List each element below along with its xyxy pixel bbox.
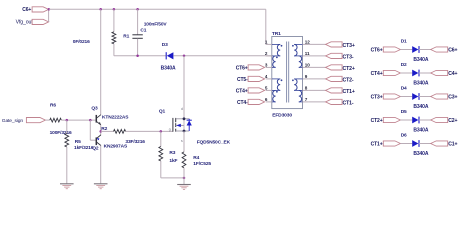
svg-text:CT1+: CT1+ (343, 89, 355, 95)
wire diode D1 to output (419, 49, 431, 51)
transistor Q1 FQD5N50C_EK mosfet (173, 118, 192, 132)
label D5 (401, 109, 407, 115)
node C1 bottom (136, 55, 139, 58)
wire TR1 pin 11 (309, 55, 326, 57)
svg-text:B340A: B340A (161, 66, 176, 72)
port C6+ (22, 7, 48, 13)
port C2+ (431, 117, 458, 124)
svg-text:Q2: Q2 (92, 146, 99, 152)
resistor R1 (112, 9, 116, 56)
label R4 (193, 155, 199, 161)
wire Vcc to Q3 collector (100, 9, 102, 114)
svg-text:C1: C1 (140, 28, 146, 34)
svg-text:11: 11 (305, 51, 310, 56)
wire diode D5 to output (419, 119, 431, 121)
node ground junction (183, 177, 186, 180)
transformer primary winding B (272, 79, 280, 102)
label Q1 (159, 108, 166, 114)
wire diode D2 to output (419, 72, 431, 74)
port CT3+ (326, 42, 355, 49)
svg-text:B340A: B340A (413, 81, 428, 87)
port CT1- (326, 99, 354, 106)
label Q2 (92, 146, 99, 152)
resistor R5 (65, 120, 69, 184)
resistor R2 (114, 130, 126, 134)
svg-text:C2+: C2+ (448, 118, 457, 124)
wire diode D4 to output (419, 96, 431, 98)
label R6 (50, 102, 56, 108)
port CT2+ input row 4 (371, 117, 401, 124)
svg-text:R1: R1 (123, 33, 129, 39)
diode D6 B340A (412, 140, 419, 147)
svg-text:Q1: Q1 (159, 108, 166, 114)
label R6 value 100F/3216 (50, 130, 72, 136)
svg-text:CT2+: CT2+ (371, 118, 383, 124)
port Vfg_out (16, 19, 49, 25)
label R3 (169, 150, 175, 156)
label Q2 value KN2907AS (104, 144, 128, 150)
svg-text:D5: D5 (401, 109, 407, 115)
svg-text:1F/C525: 1F/C525 (193, 161, 211, 167)
label Q3 (91, 105, 98, 111)
svg-text:R4: R4 (193, 155, 199, 161)
resistor R6 (50, 118, 62, 122)
wire R2 to Q1 gate (126, 130, 173, 132)
label D1 (401, 39, 407, 45)
port C1+ (431, 141, 458, 148)
node Q1 drain (183, 117, 186, 120)
node drain tap (183, 55, 186, 58)
label Q1 pin d (181, 107, 183, 111)
svg-text:CT3+: CT3+ (371, 94, 383, 100)
diode D2 B340A (412, 70, 419, 77)
port CT6+ at TR1 pin 3 (236, 65, 265, 72)
svg-text:CT1-: CT1- (343, 100, 354, 106)
label D4 (401, 86, 407, 92)
transformer primary winding A (272, 44, 280, 67)
label Q1 pin g (169, 127, 171, 131)
svg-text:1kF: 1kF (169, 158, 177, 164)
label D5 value B340A (413, 128, 428, 134)
svg-text:CT3+: CT3+ (343, 43, 355, 49)
label R3 value 1kF (169, 158, 177, 164)
svg-text:R6: R6 (50, 102, 56, 108)
svg-text:CT4+: CT4+ (371, 71, 383, 77)
transformer core (287, 42, 289, 103)
wire TR1 pin 10 (309, 66, 326, 68)
wire top rail (49, 8, 266, 10)
svg-text:CT2-: CT2- (343, 77, 354, 83)
svg-text:C1+: C1+ (448, 141, 457, 147)
capacitor C1 (132, 9, 142, 56)
label R1 (123, 33, 129, 39)
label R2 value 33F/3216 (125, 139, 145, 145)
svg-text:B340A: B340A (413, 57, 428, 63)
resistor R3 (159, 131, 163, 178)
label C1 (140, 28, 146, 34)
ground below R4 (177, 185, 191, 190)
port CT4- at TR1 pin 6 (237, 99, 265, 106)
wire R3 bottom to R4 bottom (161, 177, 184, 179)
label Q1 value FQD5N50C_EK (197, 140, 231, 146)
label C1 value 100nF/50V (144, 22, 168, 28)
TR1 right pin stubs (303, 44, 309, 102)
label D6 (401, 133, 407, 139)
svg-text:CT4-: CT4- (237, 100, 248, 106)
wire Q2 collector to ground (100, 146, 102, 184)
svg-text:B340A: B340A (413, 104, 428, 110)
wire node to R2 (101, 130, 114, 132)
svg-text:TR1: TR1 (272, 31, 281, 37)
svg-text:Q3: Q3 (91, 105, 98, 111)
transformer secondary winding C (294, 44, 302, 67)
svg-text:C4+: C4+ (448, 71, 457, 77)
wire to ground (183, 178, 185, 185)
label Q3 value KTN2222AS (102, 115, 129, 121)
label R4 value 1F/C525 (193, 161, 211, 167)
label D4 value B340A (413, 104, 428, 110)
port Gate_sign (2, 118, 46, 124)
port CT6+ input row 1 (371, 47, 401, 54)
svg-text:EFD3030: EFD3030 (272, 112, 292, 118)
wire Gate_sign to R6 (45, 119, 49, 121)
wire to diode D2 (400, 72, 412, 74)
wire R1 bottom to D3 (114, 55, 166, 57)
svg-text:CT2+: CT2+ (343, 66, 355, 72)
svg-text:B340A: B340A (413, 128, 428, 134)
transformer secondary winding D (294, 79, 302, 102)
wire top rail drop to TR1 pin1 (265, 9, 267, 44)
diode D5 B340A (412, 117, 419, 124)
label TR1 value EFD3030 (272, 112, 292, 118)
port C3+ (431, 94, 458, 101)
label D6 value B340A (413, 151, 428, 157)
svg-text:R2: R2 (101, 126, 107, 132)
svg-text:CT4+: CT4+ (236, 88, 248, 94)
port CT3- (326, 53, 354, 60)
svg-text:Gate_sign: Gate_sign (2, 118, 24, 124)
svg-text:d: d (181, 107, 183, 111)
TR1 left pin stubs (266, 44, 272, 102)
port C6+ (431, 47, 458, 54)
wire TR1 pin 9 (309, 78, 326, 80)
diode D4 B340A (412, 93, 419, 100)
svg-text:KN2907AS: KN2907AS (104, 144, 128, 150)
diode D3 B340A (166, 52, 173, 59)
svg-text:100F/3216: 100F/3216 (50, 130, 72, 136)
wire TR1 pin 12 (309, 43, 326, 45)
svg-text:CT6+: CT6+ (371, 47, 383, 53)
port CT2+ (326, 65, 355, 72)
svg-text:D3: D3 (162, 42, 168, 48)
wire TR1 pin 8 (309, 89, 326, 91)
port CT3+ input row 3 (371, 94, 401, 101)
svg-text:B340A: B340A (413, 151, 428, 157)
ground below R5 (60, 184, 74, 189)
ground below Q2 (94, 184, 108, 189)
label 0F/0216 (73, 39, 90, 45)
node Q1 source (183, 130, 186, 133)
label D3 (162, 42, 168, 48)
label D2 (401, 62, 407, 68)
label Q1 pin s (181, 139, 183, 143)
port CT2- (326, 76, 354, 83)
svg-text:D4: D4 (401, 86, 407, 92)
transformer TR1 box (272, 37, 303, 109)
node top rail / R1 (113, 8, 116, 11)
svg-text:12: 12 (305, 40, 310, 45)
svg-text:FQD5N50C_EK: FQD5N50C_EK (197, 140, 231, 146)
wire to diode D1 (400, 49, 412, 51)
label D1 value B340A (413, 57, 428, 63)
node base tap (89, 119, 92, 122)
svg-text:D6: D6 (401, 133, 407, 139)
port CT5- at TR1 pin 4 (237, 76, 265, 83)
label R5 (75, 139, 81, 145)
label D2 value B340A (413, 81, 428, 87)
svg-text:D1: D1 (401, 39, 407, 45)
wire Q3 emitter node (100, 125, 102, 135)
label D3 value B340A (161, 66, 176, 72)
svg-text:C6+: C6+ (22, 7, 31, 13)
wire diode D6 to output (419, 143, 431, 145)
wire D3 node to Q1 drain (183, 56, 185, 119)
node Vcc junction (48, 8, 51, 11)
wire to diode D4 (400, 96, 412, 98)
diode D1 B340A (412, 46, 419, 53)
transistor Q2 KN2907AS (96, 135, 101, 146)
svg-text:1kF/3216: 1kF/3216 (74, 145, 94, 151)
svg-text:CT3-: CT3- (343, 54, 354, 60)
svg-text:CT5-: CT5- (237, 77, 248, 83)
svg-text:g: g (169, 127, 171, 131)
port CT4+ at TR1 pin 5 (236, 88, 265, 95)
TR1 right pin numbers 12-7 (305, 40, 310, 103)
svg-text:KTN2222AS: KTN2222AS (102, 115, 129, 121)
wire R6 to bases (61, 119, 96, 121)
port CT4+ input row 2 (371, 70, 401, 77)
wire D3 to TR1 pin2 (173, 55, 271, 57)
polarity dots (276, 45, 294, 93)
port C4+ (431, 70, 458, 77)
label R2 (101, 126, 107, 132)
transistor Q3 KTN2222AS (96, 115, 101, 125)
svg-text:33F/3216: 33F/3216 (125, 139, 145, 145)
svg-text:C6+: C6+ (448, 47, 457, 53)
svg-text:100nF/50V: 100nF/50V (144, 22, 168, 28)
svg-text:Vfg_out: Vfg_out (16, 20, 34, 26)
wire ports join (48, 9, 50, 22)
node emitter junction (99, 130, 102, 133)
svg-text:CT6+: CT6+ (236, 65, 248, 71)
svg-text:R5: R5 (75, 139, 81, 145)
svg-text:R3: R3 (169, 150, 175, 156)
node top rail / Q column (99, 8, 102, 11)
svg-text:0F/0216: 0F/0216 (73, 39, 90, 45)
TR1 left pin numbers 1-6 (265, 40, 268, 103)
svg-text:D2: D2 (401, 62, 407, 68)
wire TR1 pin 7 (309, 101, 326, 103)
wire base to Q2 base (90, 120, 96, 140)
label TR1 (272, 31, 281, 37)
wire to diode D5 (400, 119, 412, 121)
resistor R4 (182, 131, 186, 178)
port CT1+ (326, 88, 355, 95)
svg-text:10: 10 (305, 63, 310, 68)
svg-text:CT1+: CT1+ (371, 141, 383, 147)
node R5 tap (66, 119, 69, 122)
svg-text:C3+: C3+ (448, 94, 457, 100)
wire to diode D6 (400, 143, 412, 145)
label R5 value 1kF/3216 (74, 145, 94, 151)
port CT1+ input row 5 (371, 141, 401, 148)
node top rail / C1 (136, 8, 139, 11)
node R3 tap (160, 130, 163, 133)
